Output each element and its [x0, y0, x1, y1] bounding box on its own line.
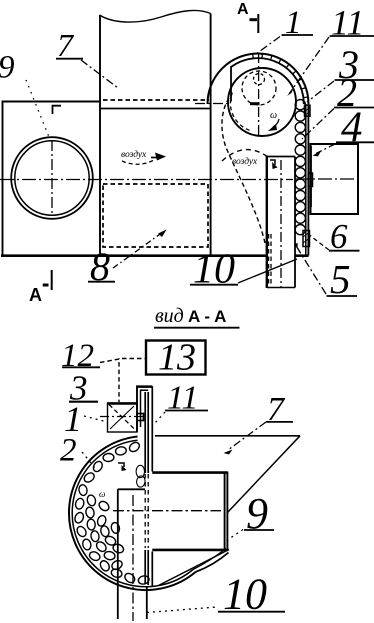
leader 1 bottom dotted: [84, 416, 107, 422]
inlet opening 9 outer circle: [11, 137, 93, 219]
nozzle hatch dashed diagonal: [109, 405, 136, 431]
inlet opening 9 inner circle: [15, 141, 89, 215]
leader 2 bottom dotted: [82, 452, 95, 468]
leader 2 top: [302, 109, 334, 140]
fan vertical centerline: [258, 53, 260, 137]
nozzle box 3 in section: [108, 403, 138, 432]
discharge channel hook inner: [141, 390, 149, 427]
nozzle axis dash-dot: [100, 416, 143, 418]
fan casing outer arc: [208, 54, 309, 104]
leader 10 bottom dotted: [147, 607, 217, 613]
downpipe axis: [132, 495, 134, 621]
outlet pipe 10 right wall: [294, 157, 296, 288]
hidden opening 8 dashed rectangle: [103, 184, 208, 247]
air flow bent arrow in pipe: [270, 160, 275, 165]
leader 6: [308, 234, 329, 250]
pipe 9 axis: [113, 510, 221, 512]
duct 7 break (wavy) line: [100, 10, 211, 22]
main body bottom edge: [1, 254, 309, 257]
motor shaft boss: [308, 173, 312, 187]
scroll inner shell arc: [72, 440, 193, 587]
leader 7 top: [81, 60, 118, 88]
scroll tongue line: [159, 550, 230, 586]
duct 7 right wall / partition: [210, 14, 212, 256]
shaft bar: [250, 102, 260, 105]
ball chain column: [295, 100, 305, 235]
svg-text:воздух: воздух: [232, 156, 258, 167]
svg-text:A - A: A - A: [188, 307, 226, 326]
impeller circle 1: [228, 68, 296, 136]
scroll outer shell arc: [69, 437, 196, 591]
volute inner dashed arc: [222, 150, 267, 161]
channel wall hidden dashed behind pipe: [145, 474, 148, 548]
inlet 9 vertical centerline: [51, 140, 53, 216]
leader 11 bottom dotted: [155, 412, 165, 423]
two balls near channel wall: [136, 465, 144, 477]
main body outline left rectangle: [3, 102, 101, 256]
leader 11 top: [289, 37, 329, 94]
delivery pipe 9 bottom edge: [152, 549, 227, 552]
leader 4: [316, 144, 336, 154]
flow bent arrow section: [118, 463, 124, 467]
leader 10 top: [238, 259, 297, 283]
corner mark: [53, 106, 62, 114]
casing right wall outer: [307, 104, 309, 256]
svg-text:вид: вид: [155, 305, 184, 327]
nozzle diagonal: [110, 406, 134, 429]
leader 9 bottom dotted: [226, 530, 243, 542]
fan casing inner arc: [230, 58, 303, 104]
delivery pipe 9 top edge: [152, 471, 227, 474]
air arrow left: [151, 157, 160, 159]
section mark top: [250, 14, 259, 33]
svg-text:13: 13: [158, 337, 196, 379]
duct 7 left wall: [99, 15, 101, 256]
casing right wall inner: [305, 104, 307, 256]
svg-text:2: 2: [60, 433, 77, 469]
collector top edge: [155, 435, 300, 437]
scroll outlet bulge inner: [193, 549, 226, 570]
discharge channel hook outer: [137, 386, 152, 432]
downpipe 10 top edge: [118, 488, 145, 490]
box 13: [146, 341, 206, 375]
outlet pipe mouth top edge: [267, 156, 295, 158]
svg-text:7: 7: [57, 27, 75, 63]
outlet pipe 10 left wall thick: [266, 156, 268, 289]
nozzle block top (3): [305, 105, 311, 116]
motor 4 rectangle: [311, 144, 359, 214]
small tongue square: [294, 243, 297, 246]
dashed link to box 13: [122, 358, 146, 360]
nozzle tip tab: [137, 414, 144, 421]
block bottom (5): [303, 231, 310, 247]
section mark bottom: [43, 270, 52, 290]
pipe centerline: [280, 160, 282, 288]
svg-text:воздух: воздух: [121, 149, 147, 160]
inlet edge line: [230, 67, 232, 101]
channel wall below pipe: [145, 550, 152, 586]
svg-text:4: 4: [341, 104, 363, 151]
svg-text:ω: ω: [99, 489, 105, 499]
impeller blades dashed arc: [230, 90, 249, 130]
volute hidden S-curve dashed: [222, 98, 265, 243]
downpipe 10 right wall below: [146, 586, 148, 619]
svg-text:9: 9: [0, 50, 15, 86]
outlet pipe bottom edge: [267, 287, 295, 289]
leader 7 bottom dash-dot with arrow: [228, 422, 266, 450]
svg-text:ω: ω: [270, 110, 277, 121]
motor centerline: [296, 178, 361, 180]
channel wall lines: [145, 386, 152, 473]
granule balls inner rows: [85, 494, 125, 571]
leader 8: [113, 232, 163, 268]
svg-text:A: A: [29, 285, 42, 305]
leader 1: [256, 37, 280, 55]
granule balls along scroll rim: [73, 441, 150, 586]
pipe hidden inner lines dashed: [269, 234, 271, 285]
hidden edge dashed at duct mouth: [103, 99, 209, 101]
impeller hub dashed circle: [242, 71, 276, 105]
radial ticks ball segments in casing ring: [253, 54, 308, 98]
dashed swirl under air label: [122, 160, 154, 164]
leader 12 dashed: [100, 359, 119, 402]
downpipe 10 left wall: [117, 489, 119, 619]
scroll outlet bulge outer: [196, 553, 229, 573]
leader 3 top: [307, 81, 334, 102]
shaft small dashed circle: [254, 74, 265, 85]
leader 5: [297, 247, 327, 295]
fan horizontal centerline: [195, 103, 231, 105]
duct mouth inner edge: [100, 108, 211, 110]
delivery pipe 9 end flange: [225, 472, 228, 552]
leader 9 dotted: [26, 80, 49, 137]
main horizontal centerline: [0, 179, 293, 181]
collector corner line: [228, 436, 301, 513]
svg-text:A: A: [237, 1, 249, 18]
motor thick left edge: [310, 146, 312, 207]
rotation arrow: [273, 119, 279, 127]
